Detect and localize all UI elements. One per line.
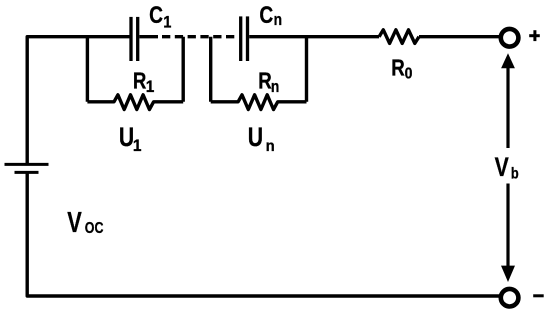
capacitor Cn right plate bbox=[246, 16, 249, 61]
svg-text:R: R bbox=[391, 56, 404, 81]
svg-text:V: V bbox=[67, 207, 82, 239]
wire dashed (ellipsis between RC blocks) bbox=[162, 35, 235, 38]
svg-text:1: 1 bbox=[146, 79, 155, 96]
capacitor Cn left plate bbox=[239, 16, 242, 61]
battery V_OC long plate bbox=[5, 163, 49, 166]
svg-text:C: C bbox=[149, 1, 163, 29]
label Rn bbox=[258, 69, 279, 97]
svg-text:b: b bbox=[511, 165, 519, 183]
arrow Vb lower shaft bbox=[506, 184, 509, 268]
wire block1 right vertical bbox=[181, 37, 184, 102]
wire from Cn to R0 bbox=[249, 35, 379, 38]
resistor R0 bbox=[379, 30, 419, 44]
capacitor C1 left plate bbox=[129, 17, 132, 61]
svg-text:0: 0 bbox=[405, 66, 413, 83]
svg-text:U: U bbox=[119, 123, 134, 153]
svg-text:R: R bbox=[133, 69, 146, 94]
label C1 bbox=[149, 1, 172, 32]
svg-text:V: V bbox=[495, 153, 509, 183]
svg-text:OC: OC bbox=[85, 220, 104, 238]
resistor R1 (bottom branch of block 1) bbox=[87, 95, 183, 110]
label Voc bbox=[67, 207, 103, 239]
svg-text:n: n bbox=[274, 11, 282, 29]
wire left rail bottom and bottom rail to bottom terminal bbox=[27, 172, 501, 296]
minus sign at bottom terminal bbox=[533, 294, 544, 297]
battery V_OC short plate bbox=[15, 171, 39, 174]
label Un bbox=[248, 123, 275, 155]
arrow Vb upper head (points up to + terminal) bbox=[501, 53, 515, 68]
svg-text:1: 1 bbox=[133, 138, 142, 155]
label Cn bbox=[259, 1, 282, 29]
arrow Vb lower head (points down to - terminal) bbox=[501, 266, 515, 282]
svg-text:U: U bbox=[248, 123, 263, 153]
terminal bottom (-) circle bbox=[501, 289, 519, 307]
svg-text:C: C bbox=[259, 1, 273, 29]
label Vb bbox=[495, 153, 519, 183]
label R1 bbox=[133, 69, 155, 97]
resistor Rn (bottom branch of block 2) bbox=[211, 95, 307, 110]
svg-text:R: R bbox=[258, 69, 271, 94]
label R0 bbox=[391, 56, 412, 83]
label U1 bbox=[119, 123, 142, 155]
wire block1 left vertical bbox=[86, 37, 89, 102]
terminal top (+) circle bbox=[501, 29, 519, 47]
svg-text:n: n bbox=[266, 138, 275, 156]
wire stub after C1 bbox=[139, 35, 158, 38]
plus sign at top terminal bbox=[529, 34, 540, 37]
svg-text:n: n bbox=[271, 78, 279, 96]
wire left rail top (battery to top-left corner to C1 left plate) bbox=[27, 37, 129, 164]
svg-text:1: 1 bbox=[163, 14, 172, 32]
wire block2 left vertical bbox=[209, 37, 212, 102]
wire from R0 to top terminal bbox=[419, 35, 501, 38]
capacitor C1 right plate bbox=[136, 17, 139, 61]
wire block2 right vertical bbox=[305, 37, 308, 102]
arrow Vb upper shaft bbox=[506, 66, 509, 148]
